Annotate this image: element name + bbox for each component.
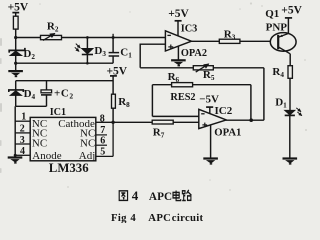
pin 4 stub (15, 154, 30, 156)
wire IC3 plus input loop (140, 44, 165, 68)
IC2 V- pin wire (209, 107, 211, 114)
ground (8, 71, 23, 76)
wire R6 right down to IC2 output (250, 85, 252, 121)
+5V terminal bar R8 (110, 75, 117, 77)
junction tick (112, 34, 114, 38)
wire D1 to ground (289, 115, 291, 158)
wire net A (16, 62, 113, 64)
wire IC2 minus input (152, 115, 198, 117)
wire (112, 76, 114, 94)
svg-text:4: 4 (20, 146, 25, 157)
node D3 top junction (86, 36, 89, 39)
wire pin8 to IC2 plus input (96, 121, 199, 123)
wire D4/C2 bottom rail (16, 105, 47, 107)
wire to ground (15, 63, 17, 71)
node junction D2-netA (14, 62, 17, 65)
laser diode D1 (284, 110, 295, 115)
transistor Q1 (270, 18, 296, 54)
svg-text:OPA1: OPA1 (214, 127, 241, 139)
svg-text:+5V: +5V (107, 66, 128, 78)
wire (289, 78, 291, 110)
IC3 plus sign (168, 45, 173, 50)
resistor R2 (adjustable) (41, 33, 62, 40)
D3 light arrows (75, 44, 80, 52)
pin 5 stub wire (96, 155, 113, 157)
svg-text:LM336: LM336 (49, 161, 89, 175)
scan noise smudges (0, 38, 2, 173)
pin 2 stub (15, 132, 30, 134)
svg-text:2: 2 (20, 124, 25, 135)
svg-text:PNP: PNP (266, 21, 288, 33)
caption line 1: 图4 APC 电路 (119, 188, 191, 203)
wire left rail down (14, 106, 16, 155)
IC3 minus sign (167, 34, 171, 36)
+5V terminal bar top-left (12, 12, 19, 14)
op-amp IC2 triangle (199, 109, 227, 128)
wire R6 left down to IC2 minus (151, 85, 153, 117)
wire (15, 29, 17, 37)
node pin8 junction (111, 121, 114, 124)
wire net B down to IC2 output (263, 68, 265, 120)
D1 light arrows (296, 108, 302, 116)
IC2 minus sign (201, 113, 204, 115)
zener diode D4 (9, 81, 23, 107)
ground (8, 158, 23, 163)
pin 1 stub (15, 120, 30, 122)
svg-text:Q1: Q1 (265, 8, 279, 20)
glyph 电 (173, 190, 181, 200)
wire IC2 output (226, 119, 264, 121)
-5V terminal bar IC2 (206, 106, 213, 108)
node D3 bottom junction (86, 62, 89, 65)
svg-text:−5V: −5V (199, 93, 219, 105)
wire top net (16, 37, 166, 39)
ground arrow under OPA2 (171, 60, 186, 65)
svg-text:RES2: RES2 (170, 92, 195, 103)
pin 6 stub (96, 144, 107, 146)
IC3 V+ pin wire (177, 21, 179, 36)
node pin4 junction (14, 154, 17, 157)
pin 7 stub (96, 134, 107, 136)
wire D4/C2 top rail to +5V column (16, 80, 113, 82)
svg-text:IC2: IC2 (215, 105, 233, 117)
node IC2 output junction (249, 118, 253, 122)
ground under IC2 (203, 159, 218, 164)
svg-text:1: 1 (21, 112, 26, 123)
glyph 路 (182, 190, 191, 201)
zener diode D2 (9, 48, 25, 56)
IC2 plus sign (202, 123, 207, 128)
node A junction (14, 36, 17, 39)
wire (15, 13, 17, 17)
glyph 图 (119, 191, 127, 201)
resistor R4 (288, 66, 292, 79)
capacitor C2 (41, 81, 52, 107)
svg-text:+5V: +5V (281, 5, 302, 17)
svg-text:NC: NC (80, 137, 95, 149)
resistor R3 (219, 39, 240, 43)
wire R3 to Q1 base (240, 40, 278, 42)
svg-text:IC3: IC3 (181, 24, 198, 35)
resistor R7 (152, 120, 173, 124)
svg-text:3: 3 (20, 135, 25, 146)
svg-text:+5V: +5V (168, 8, 189, 20)
wire net B (140, 67, 264, 69)
wire (112, 108, 114, 122)
IC2 ground pin wire (210, 125, 212, 159)
resistor R5 (adjustable) (193, 64, 213, 72)
+5V terminal bar IC3 (175, 20, 182, 22)
+5V terminal bar Q1 (285, 17, 292, 19)
capacitor C1 (109, 38, 120, 64)
resistor R8 (112, 94, 116, 108)
svg-text:OPA2: OPA2 (181, 48, 207, 59)
resistor R1 (13, 16, 18, 29)
wire IC3 output (191, 40, 219, 42)
svg-text:Fig4APCcircuit: Fig4APCcircuit (111, 212, 204, 223)
photodiode D3 (81, 38, 93, 64)
svg-text:APC: APC (149, 191, 172, 203)
node C1 top junction (112, 36, 115, 39)
wire (15, 38, 17, 51)
wire R6 feedback (152, 84, 251, 86)
pin 3 stub (15, 143, 30, 145)
svg-text:NC: NC (32, 137, 47, 149)
svg-text:4: 4 (132, 188, 139, 203)
IC1 box LM336 (30, 117, 96, 160)
wire pin5 up to pin8 node (112, 122, 114, 156)
resistor R6 (172, 83, 193, 87)
IC3 ground pin wire (177, 46, 179, 60)
wire (15, 56, 17, 64)
svg-text:IC1: IC1 (50, 107, 66, 118)
svg-text:+5V: +5V (8, 1, 29, 13)
op-amp IC3 triangle (165, 31, 191, 51)
ground under D1 (283, 159, 298, 164)
wire Q1 collector (289, 54, 291, 66)
